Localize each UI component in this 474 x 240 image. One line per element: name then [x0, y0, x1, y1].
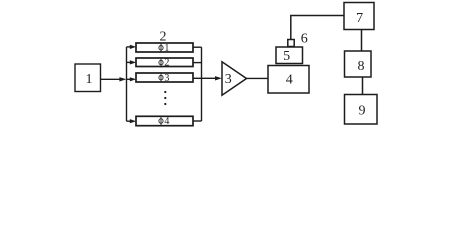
wire phi1 to right bus	[193, 46, 202, 48]
arrowhead into phi4	[130, 119, 136, 123]
phase shifter phi2 box	[136, 58, 193, 67]
svg-text:3: 3	[164, 73, 169, 84]
svg-text:2: 2	[164, 58, 169, 69]
svg-text:4: 4	[286, 72, 293, 87]
arrowhead into bus node	[119, 77, 126, 81]
label phi2	[159, 58, 170, 69]
ellipsis dots	[164, 91, 166, 93]
block 4	[268, 66, 309, 94]
left bus vertical	[126, 47, 128, 121]
arrowhead into phi1	[130, 45, 136, 49]
wire block6 up and right to block 7	[291, 16, 344, 40]
amplifier 3 (triangle)	[222, 62, 247, 95]
svg-text:8: 8	[358, 59, 365, 74]
wire bus to phi2	[127, 61, 132, 63]
wire phi3 to right bus	[193, 77, 202, 79]
wire bus to phi3	[127, 78, 132, 80]
wire 8 to 9	[362, 77, 364, 95]
arrowhead into amplifier	[215, 76, 222, 80]
wire bus to phi1	[127, 46, 132, 48]
phase shifter phi4 box	[136, 116, 193, 125]
block 8	[345, 51, 372, 77]
label phi3	[159, 73, 170, 84]
svg-text:1: 1	[86, 72, 93, 87]
wire 7 to 8	[361, 30, 363, 52]
svg-text:1: 1	[164, 43, 169, 54]
arrowhead into phi3	[130, 77, 136, 81]
svg-text:5: 5	[283, 49, 290, 64]
label phi1	[159, 43, 170, 54]
wire phi4 to right bus	[193, 120, 202, 122]
svg-text:9: 9	[359, 104, 366, 119]
label phi4	[159, 116, 170, 127]
block 1 (source)	[75, 64, 101, 92]
block 7	[344, 3, 374, 30]
wire source to bus	[101, 78, 122, 80]
right bus vertical	[201, 47, 203, 121]
wire bus to phi4	[127, 120, 132, 122]
block 6 (small square)	[288, 40, 294, 47]
phase shifter phi3 box	[136, 73, 193, 82]
wire phi2 to right bus	[193, 62, 202, 64]
svg-text:7: 7	[356, 11, 363, 26]
arrowhead into phi2	[130, 60, 136, 64]
svg-text:6: 6	[301, 31, 308, 46]
wire amplifier to block 4	[247, 77, 269, 79]
svg-text:4: 4	[164, 116, 169, 127]
svg-text:3: 3	[225, 72, 232, 87]
block 5	[276, 47, 303, 64]
wire bus to amplifier	[202, 77, 217, 79]
phase shifter phi1 box	[136, 43, 193, 52]
block 9	[345, 95, 378, 125]
